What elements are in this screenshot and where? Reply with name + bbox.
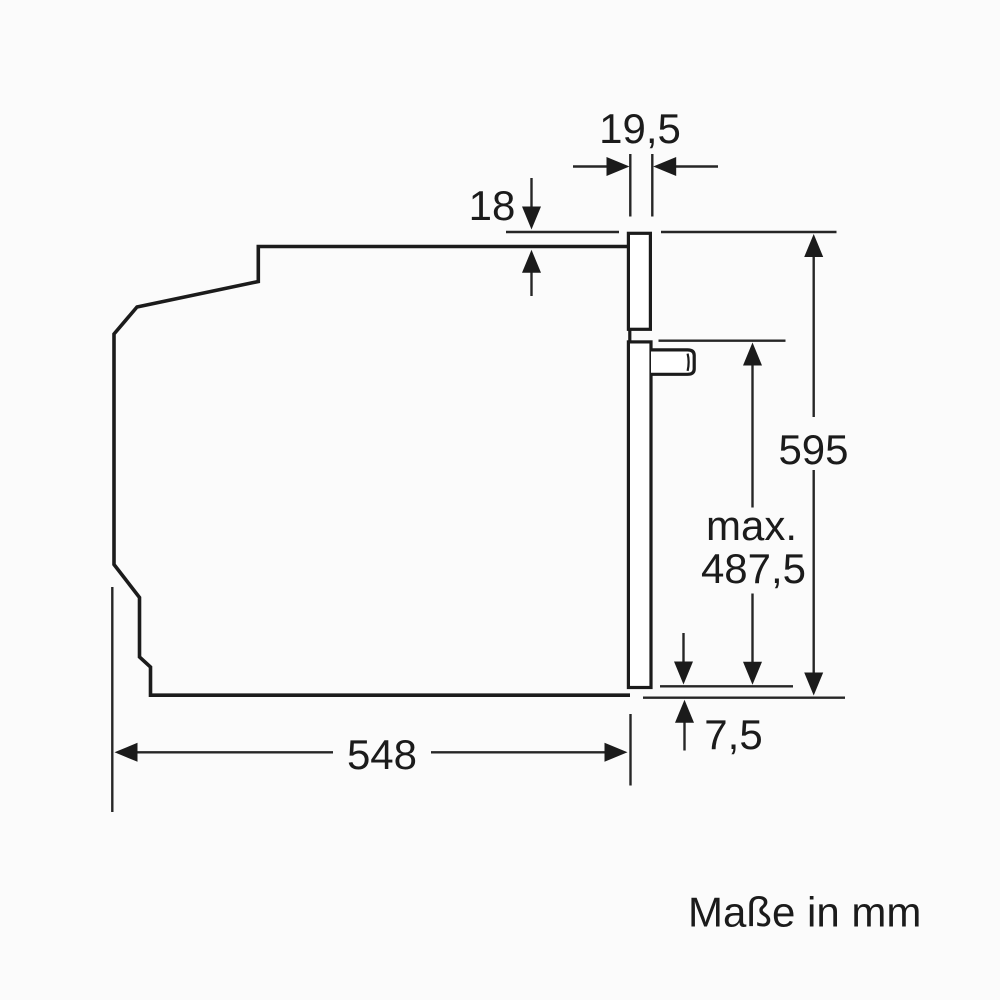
dimension line 548 right shaft [431, 751, 606, 753]
arrowhead 19,5 right (points left) [653, 157, 676, 176]
svg-text:19,5: 19,5 [599, 105, 681, 152]
arrowhead 487,5 up [743, 343, 762, 366]
svg-text:Maße in mm: Maße in mm [688, 889, 921, 936]
door handle [651, 350, 694, 374]
arrow shaft 18 lower [530, 272, 532, 296]
dimension line 595 lower shaft [813, 470, 815, 674]
svg-text:487,5: 487,5 [701, 545, 806, 592]
arrowhead 18 up [522, 250, 541, 273]
arrow shaft 7,5 lower [683, 721, 685, 751]
extension line handle top (y=340.7) [659, 340, 786, 342]
dimension line 595 upper shaft [813, 255, 815, 417]
extension line 19,5 right [651, 154, 653, 217]
extension line 19,5 left [629, 154, 631, 217]
svg-text:595: 595 [778, 426, 848, 473]
arrowhead 595 up [804, 234, 823, 257]
extension line top (appliance top, y=232) [506, 231, 837, 233]
dimension line 487,5 upper shaft [751, 364, 753, 508]
svg-text:max.: max. [706, 502, 797, 549]
arrowhead 18 down [522, 207, 541, 230]
extension line cabinet bottom (y=697.7) [643, 697, 845, 699]
oven door left edge bridge [628, 329, 631, 342]
svg-text:18: 18 [469, 182, 516, 229]
arrowhead 595 down [804, 673, 823, 696]
dimension line 19,5 right shaft [676, 165, 718, 167]
arrowhead 7,5 up [675, 700, 694, 723]
extension line niche bottom (y=686.3) [660, 685, 793, 687]
arrowhead 19,5 left (points right) [607, 157, 630, 176]
cabinet outline [114, 247, 630, 696]
svg-text:7,5: 7,5 [704, 711, 762, 758]
arrowhead 7,5 down [674, 662, 693, 685]
svg-text:548: 548 [347, 731, 417, 778]
extension line 548 left [111, 587, 113, 812]
dimension line 487,5 lower shaft [751, 594, 753, 664]
oven door lower section [628, 342, 651, 688]
arrowhead 548 right [605, 743, 628, 762]
arrowhead 487,5 down [743, 662, 762, 685]
dimension line 548 left shaft [136, 751, 333, 753]
arrow shaft 18 upper [530, 178, 532, 208]
dimension line 19,5 left shaft [573, 165, 608, 167]
oven door upper section [628, 233, 650, 329]
extension line 548 right [629, 714, 631, 786]
handle end cap line [688, 354, 689, 371]
arrowhead 548 left [115, 743, 138, 762]
arrow shaft 7,5 upper [682, 633, 684, 663]
